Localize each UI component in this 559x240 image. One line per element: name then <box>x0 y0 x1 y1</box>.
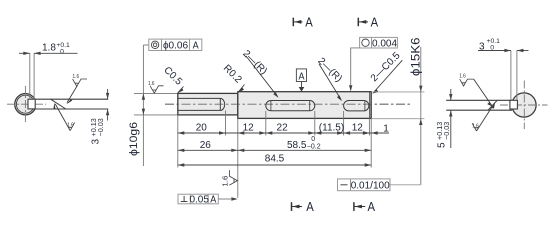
phi15K6 extension lines <box>371 92 424 119</box>
svg-text:−0.2: −0.2 <box>307 144 321 151</box>
dimension 58.5 0/-0.2 text <box>287 136 321 151</box>
svg-text:1.8: 1.8 <box>42 43 56 54</box>
slot 2 (middle flat) <box>266 101 315 111</box>
dimension 5 +0.13/-0.03 (right detail) <box>435 89 453 148</box>
left end view circle <box>15 94 36 115</box>
section arrow A bottom left <box>292 199 315 214</box>
right lower surface finish 1.6 <box>472 102 495 131</box>
svg-text:−0.03: −0.03 <box>442 122 451 140</box>
svg-text:0: 0 <box>311 136 315 143</box>
right end view centerlines <box>500 81 548 130</box>
section arrow A top left <box>293 15 313 30</box>
svg-text:A: A <box>305 15 313 30</box>
svg-text:3: 3 <box>479 41 485 52</box>
svg-text:0: 0 <box>58 49 64 56</box>
surface finish 1.6 on phi10 extension <box>148 81 164 93</box>
svg-text:ϕ0.06: ϕ0.06 <box>163 41 189 52</box>
dimension row 1 extension lines <box>178 111 371 198</box>
label 2-C0.5 <box>369 50 403 94</box>
datum A flag <box>296 69 306 92</box>
slot 3 (right flat) <box>344 101 369 111</box>
svg-text:1.6: 1.6 <box>148 81 155 87</box>
dimension row 1 line <box>178 132 389 134</box>
svg-text:26: 26 <box>200 140 212 151</box>
phi15K6 dimension line + 0.01/100 leader <box>390 47 422 185</box>
svg-text:−0.03: −0.03 <box>96 118 105 136</box>
svg-text:2—(R): 2—(R) <box>315 56 344 85</box>
section arrow A top right <box>358 15 378 30</box>
chamfer label C0.5 <box>161 65 184 93</box>
dimension row 1 arrowheads <box>178 131 378 134</box>
right slot ramp line <box>488 100 497 110</box>
svg-text:(11.5): (11.5) <box>319 123 344 134</box>
svg-text:12: 12 <box>352 123 364 134</box>
svg-text:84.5: 84.5 <box>265 153 285 164</box>
dimension row 3 line <box>178 163 371 166</box>
rotated surface finish 1.6 at step <box>221 170 238 187</box>
svg-text:A: A <box>210 195 216 206</box>
left end view centerlines <box>7 86 46 123</box>
svg-text:22: 22 <box>277 123 289 134</box>
main centerline redraw over sections <box>165 103 412 105</box>
phi15K6 label <box>411 38 423 77</box>
svg-text:58.5: 58.5 <box>287 140 307 151</box>
svg-text:20: 20 <box>196 123 208 134</box>
main view centerline <box>165 103 412 105</box>
phi10 shaft section <box>178 93 238 115</box>
left detail slot side-view bar <box>35 99 108 109</box>
phi10g6 dimension line / FCF leader <box>142 45 149 166</box>
dimension row 1 texts <box>196 123 389 135</box>
right upper surface finish 1.6 <box>459 74 493 107</box>
left end view slot rectangle <box>28 99 35 109</box>
svg-text:A: A <box>193 41 199 52</box>
svg-text:ϕ15K6: ϕ15K6 <box>411 38 423 77</box>
svg-text:0.01/100: 0.01/100 <box>351 181 390 192</box>
label 2-(R) first <box>240 48 278 97</box>
right detail bar <box>446 100 512 110</box>
phi10g6 label <box>128 122 140 156</box>
svg-text:A: A <box>299 71 305 82</box>
shaft body section <box>238 92 371 119</box>
svg-text:5: 5 <box>437 142 448 148</box>
svg-text:C0.5: C0.5 <box>161 65 184 88</box>
svg-text:1.6: 1.6 <box>73 74 80 80</box>
svg-text:3: 3 <box>91 139 102 145</box>
right end view slot rectangle <box>510 100 518 109</box>
svg-text:R0.2: R0.2 <box>221 63 244 86</box>
FCF concentricity phi0.06 A <box>149 39 202 52</box>
svg-text:A: A <box>306 199 314 214</box>
svg-text:A: A <box>371 15 379 30</box>
slot 1 (left keyway) <box>178 98 225 110</box>
svg-text:ϕ10g6: ϕ10g6 <box>128 122 140 156</box>
dimension 1.8 +0.1/0 <box>19 42 78 99</box>
svg-text:0.05: 0.05 <box>189 195 209 206</box>
fillet label R0.2 <box>221 63 245 92</box>
left slot ramp line <box>51 99 66 109</box>
section arrow A bottom right <box>354 199 375 214</box>
svg-text:1.6: 1.6 <box>459 74 466 80</box>
FCF circularity 0.004 <box>349 37 397 91</box>
svg-text:0.004: 0.004 <box>372 38 397 49</box>
svg-text:1.6: 1.6 <box>221 176 230 187</box>
dimension row 2 line <box>178 149 371 152</box>
label 2-(R) second <box>315 56 344 101</box>
svg-text:1: 1 <box>383 124 389 135</box>
left upper surface finish 1.6 <box>66 74 87 104</box>
svg-text:2—(R): 2—(R) <box>240 48 269 77</box>
right end chamfer line <box>369 92 371 119</box>
right end view circle <box>512 93 536 117</box>
svg-text:0: 0 <box>489 44 495 51</box>
dimension 3 +0.1/0 (right) <box>478 38 529 100</box>
phi10g6 dimension extension lines <box>134 93 178 115</box>
dimension 3 +0.13/-0.03 (left detail slot width) <box>89 89 109 145</box>
left lower surface finish 1.6 <box>53 103 74 131</box>
svg-text:12: 12 <box>243 123 255 134</box>
FCF perpendicularity 0.05 A <box>178 194 238 205</box>
svg-text:A: A <box>367 199 375 214</box>
FCF straightness 0.01/100 <box>338 179 391 192</box>
